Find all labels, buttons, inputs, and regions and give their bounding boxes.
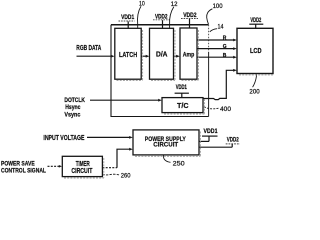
label 100 with leader to IC boundary (207, 3, 223, 25)
label 260 with leader to timer circuit (103, 172, 131, 179)
svg-text:12: 12 (171, 1, 178, 8)
wire G output amp to LCD (197, 44, 237, 50)
LCD panel block 200 (237, 28, 273, 73)
power terminal VDD1 output of power supply (199, 129, 218, 141)
label 400 with leader to T/C (204, 106, 231, 113)
svg-text:D/A: D/A (156, 52, 168, 59)
wire latch to D/A (141, 55, 149, 58)
label 14 with leader to amp side (210, 24, 224, 32)
svg-text:VDD2: VDD2 (227, 138, 239, 144)
svg-text:CIRCUIT: CIRCUIT (153, 142, 179, 149)
wire R output amp to LCD (197, 36, 237, 42)
svg-text:250: 250 (173, 160, 185, 167)
svg-text:G: G (223, 44, 227, 50)
power pin VDD2 over amp (181, 13, 198, 28)
svg-text:Vsync: Vsync (64, 111, 81, 118)
wire INPUT VOLTAGE to power supply (43, 135, 132, 142)
svg-text:400: 400 (220, 106, 231, 113)
power supply circuit block 250 (133, 130, 199, 155)
svg-text:VDD2: VDD2 (250, 18, 261, 24)
svg-text:CIRCUIT: CIRCUIT (71, 168, 93, 175)
svg-text:VDD1: VDD1 (121, 15, 135, 21)
wire POWER SAVE CONTROL SIGNAL to timer (1, 161, 62, 175)
label 200 with leader to LCD (249, 74, 260, 96)
power pin VDD1 over latch (119, 15, 135, 28)
wire timer circuit to power supply (102, 148, 132, 168)
svg-text:LATCH: LATCH (119, 52, 137, 59)
amplifier block 14 (180, 28, 197, 79)
power pin VDD2 over LCD (249, 18, 263, 28)
wire T/C to LCD (203, 69, 237, 100)
label 12 with leader to D/A (170, 1, 178, 29)
svg-text:RGB DATA: RGB DATA (76, 45, 101, 52)
label 250 with leader to power supply circuit (163, 155, 185, 167)
svg-text:INPUT VOLTAGE: INPUT VOLTAGE (43, 135, 84, 142)
svg-text:14: 14 (218, 24, 224, 31)
svg-text:100: 100 (213, 3, 223, 10)
svg-text:TIMER: TIMER (76, 161, 90, 168)
wire B output amp to LCD (197, 53, 237, 59)
wire D/A to amp (174, 55, 180, 58)
svg-text:LCD: LCD (250, 48, 262, 55)
latch block 10 (115, 28, 141, 79)
wire RGB DATA input to latch (76, 45, 114, 57)
svg-text:VDD1: VDD1 (204, 129, 219, 135)
power pin VDD1 over T/C (175, 85, 189, 98)
svg-text:Amp: Amp (183, 52, 195, 59)
svg-text:Hsync: Hsync (65, 104, 81, 111)
driver IC boundary box 100 (111, 25, 209, 117)
power pin VDD2 over D/A (153, 14, 170, 28)
label 10 with leader to latch (137, 0, 145, 28)
D/A converter block 12 (150, 28, 174, 79)
svg-text:VDD1: VDD1 (176, 85, 188, 91)
wire DOTCLK Hsync Vsync input to T/C (64, 97, 161, 118)
svg-text:CONTROL SIGNAL: CONTROL SIGNAL (1, 167, 46, 174)
svg-text:B: B (223, 53, 227, 59)
svg-text:10: 10 (139, 0, 145, 7)
timing controller block T/C 400 (162, 98, 203, 113)
power terminal VDD2 output of power supply (199, 138, 240, 148)
svg-text:200: 200 (249, 89, 260, 96)
svg-text:R: R (223, 36, 227, 42)
svg-text:T/C: T/C (177, 103, 189, 110)
svg-text:DOTCLK: DOTCLK (64, 97, 85, 104)
timer circuit block 260 (62, 156, 102, 176)
svg-text:260: 260 (121, 172, 131, 179)
